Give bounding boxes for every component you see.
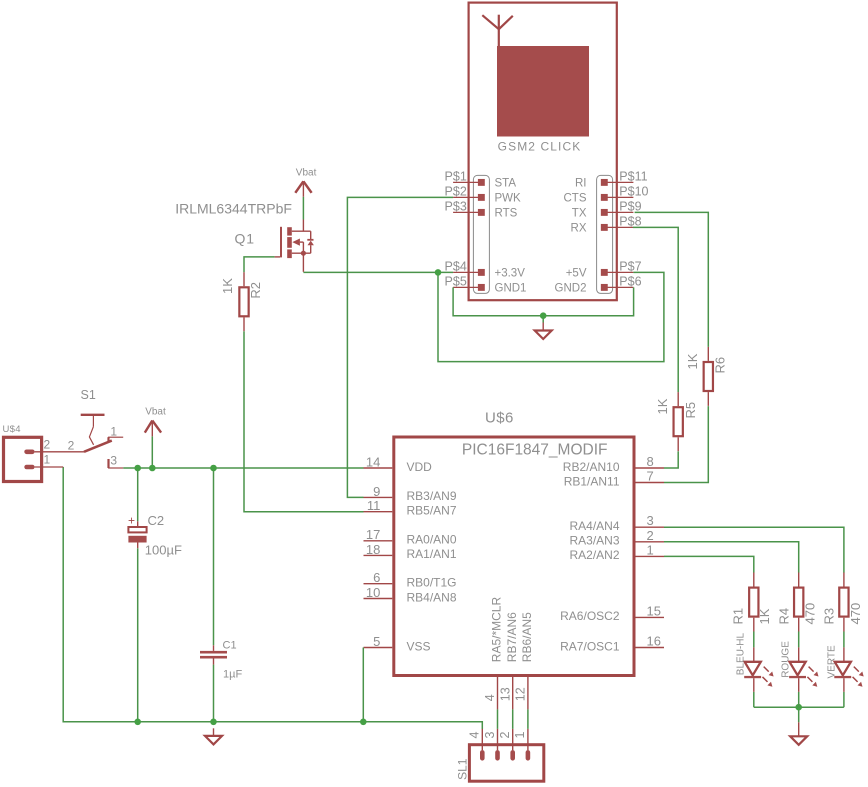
pin 1 of U$4 (24, 453, 63, 470)
wire Vbat supply stub at S1 (151, 436, 153, 468)
GSM2 CLICK filled square (497, 46, 589, 137)
resistor R5 1K (655, 392, 698, 451)
svg-text:VDD: VDD (407, 460, 433, 474)
supply Vbat at S1 (145, 407, 166, 437)
wire TX to R6 (635, 212, 709, 347)
pin P$5 GND1 (445, 275, 527, 295)
wire C1 bottom (213, 665, 215, 722)
capacitor C2 100uF (128, 513, 182, 558)
svg-text:2: 2 (647, 528, 654, 543)
wire PWK to RB3/AN9 (347, 197, 453, 497)
junction GND loop (540, 312, 547, 319)
wire Vbat to Q1 drain (302, 197, 304, 220)
svg-text:12: 12 (514, 687, 528, 701)
IC U$6 PIC16F1847_MODIF body (394, 437, 634, 676)
svg-text:Vbat: Vbat (145, 407, 166, 418)
wire ground rail from U$4 pin1 (63, 467, 482, 729)
svg-text:RB2/AN10: RB2/AN10 (563, 460, 620, 474)
svg-text:+3.3V: +3.3V (495, 268, 526, 280)
svg-text:RTS: RTS (495, 208, 518, 220)
svg-text:1K: 1K (220, 278, 235, 294)
pin 1 RA2/AN2 (569, 542, 664, 562)
svg-text:+5V: +5V (566, 268, 587, 280)
SL1 pin 2 (498, 729, 515, 761)
wire C2 bottom to ground rail (137, 548, 139, 722)
svg-text:ROUGE: ROUGE (780, 641, 791, 678)
pin 10 RB4/AN8 (364, 585, 457, 604)
svg-text:RB4/AN8: RB4/AN8 (407, 590, 457, 604)
svg-text:18: 18 (366, 542, 380, 557)
connector SL1 body (469, 745, 543, 782)
wire C2 top branch (137, 468, 139, 521)
pin P$6 GND2 (555, 275, 642, 295)
svg-text:RB5/AN7: RB5/AN7 (407, 504, 457, 518)
svg-text:4: 4 (483, 694, 497, 701)
svg-text:CTS: CTS (564, 193, 587, 205)
wire C1 branch top (213, 468, 215, 645)
switch S1 (81, 388, 112, 452)
svg-text:1K: 1K (655, 398, 670, 414)
svg-text:C1: C1 (223, 640, 237, 652)
svg-text:R4: R4 (776, 608, 791, 625)
svg-text:1K: 1K (685, 353, 700, 369)
transistor Q1 IRLML6344TRPbF (275, 220, 314, 272)
LED ROUGE (780, 632, 818, 708)
svg-text:RI: RI (575, 178, 587, 190)
pin 2 RA3/AN3 (569, 528, 664, 548)
pin P$9 TX (572, 200, 642, 220)
svg-text:GND1: GND1 (495, 283, 527, 295)
svg-text:U$6: U$6 (485, 410, 514, 427)
svg-text:RB7/AN6: RB7/AN6 (505, 612, 519, 662)
pin P$10 CTS (564, 185, 649, 205)
wire R5 bottom to RB2/AN10 pin8 (664, 451, 678, 468)
svg-text:PIC16F1847_MODIF: PIC16F1847_MODIF (462, 441, 608, 458)
ground symbol bottom right (790, 722, 807, 745)
junction LED rail (795, 704, 802, 711)
wire VSS riser (362, 648, 364, 722)
svg-text:14: 14 (366, 454, 380, 469)
pin 17 RA0/AN0 (364, 527, 457, 546)
svg-text:7: 7 (647, 469, 654, 484)
svg-text:5: 5 (373, 634, 380, 649)
antenna (482, 15, 513, 46)
svg-text:TX: TX (572, 208, 587, 220)
svg-text:R1: R1 (731, 608, 746, 625)
svg-text:RX: RX (571, 223, 587, 235)
svg-text:P$3: P$3 (445, 200, 467, 214)
svg-text:9: 9 (373, 484, 380, 499)
svg-text:RB6/AN5: RB6/AN5 (520, 612, 534, 662)
svg-text:C2: C2 (148, 513, 165, 528)
pin 13 RB7/AN6 (498, 612, 519, 710)
svg-text:U$4: U$4 (3, 424, 21, 435)
svg-text:RA5/*MCLR: RA5/*MCLR (490, 597, 504, 663)
svg-text:2: 2 (68, 439, 75, 453)
svg-text:R3: R3 (822, 608, 837, 625)
svg-text:RA0/AN0: RA0/AN0 (407, 533, 457, 547)
svg-text:10: 10 (366, 585, 380, 600)
wire gate to R2 top (244, 257, 275, 272)
junction +3.3V node (435, 269, 442, 276)
svg-text:R6: R6 (712, 357, 727, 374)
svg-text:1: 1 (647, 542, 654, 557)
svg-text:16: 16 (647, 634, 661, 649)
svg-text:P$2: P$2 (445, 185, 467, 199)
connector U$4 body (4, 437, 42, 481)
S1 pin 3 (108, 454, 123, 468)
svg-text:8: 8 (647, 454, 654, 469)
pin 4 RA5/*MCLR (483, 597, 504, 710)
module U$5 GSM2 CLICK outline (469, 3, 617, 301)
svg-text:PWK: PWK (495, 193, 522, 205)
svg-text:2: 2 (44, 438, 51, 452)
right header outline (597, 175, 613, 293)
pin 16 RA7/OSC1 (560, 634, 664, 654)
pin 8 RB2/AN10 (563, 454, 664, 474)
pin 6 RB0/T1G (364, 570, 457, 589)
wire RA4 to R3 (664, 527, 844, 572)
wire RA3 to R4 (664, 542, 799, 573)
svg-text:RA6/OSC2: RA6/OSC2 (560, 609, 620, 623)
svg-text:1: 1 (110, 425, 117, 439)
svg-text:2: 2 (498, 732, 512, 739)
svg-text:R5: R5 (683, 402, 698, 419)
svg-text:17: 17 (366, 527, 380, 542)
resistor R4 470 (776, 573, 817, 632)
wire GND1 GND2 loop (453, 287, 633, 315)
svg-text:1K: 1K (757, 608, 772, 624)
svg-text:STA: STA (495, 178, 517, 190)
svg-text:GSM2 CLICK: GSM2 CLICK (498, 140, 582, 154)
pin 2 of U$4 (24, 438, 84, 455)
wires chip bottom to SL1 (497, 709, 499, 729)
svg-text:100µF: 100µF (145, 543, 182, 558)
svg-text:470: 470 (848, 603, 863, 625)
svg-text:R2: R2 (248, 282, 263, 299)
svg-text:BLEU-HL: BLEU-HL (735, 633, 746, 676)
pin P$7 +5V (566, 260, 642, 280)
wire RA2 to R1 (664, 556, 754, 572)
svg-text:SL1: SL1 (455, 758, 469, 780)
S1 pin 1 (108, 425, 123, 442)
wire LED cathode rail (754, 706, 844, 708)
pin 5 VSS (364, 634, 431, 653)
svg-text:P$10: P$10 (619, 185, 648, 199)
LED BLEU-HL (735, 632, 773, 708)
svg-text:VSS: VSS (407, 639, 431, 653)
svg-text:RA1/AN1: RA1/AN1 (407, 547, 457, 561)
pin 18 RA1/AN1 (364, 542, 457, 561)
resistor R1 1K (731, 573, 772, 632)
svg-text:IRLML6344TRPbF: IRLML6344TRPbF (175, 201, 292, 217)
svg-text:11: 11 (367, 498, 381, 513)
wire Vbat-net horizontal (123, 467, 363, 469)
junction C2/gnd nodes (134, 465, 141, 472)
svg-text:RB1/AN11: RB1/AN11 (564, 474, 620, 488)
svg-text:RA2/AN2: RA2/AN2 (569, 548, 619, 562)
svg-text:VERTE: VERTE (826, 645, 837, 678)
svg-text:4: 4 (468, 732, 482, 739)
resistor R3 470 (822, 573, 864, 632)
svg-text:3: 3 (110, 454, 117, 468)
wire R6 bottom to RB1/AN11 pin7 (664, 406, 708, 482)
SL1 pin 3 (483, 729, 500, 761)
svg-text:P$9: P$9 (619, 200, 641, 214)
svg-text:1µF: 1µF (223, 669, 242, 681)
pin P$3 RTS (445, 200, 518, 220)
svg-text:Vbat: Vbat (296, 168, 317, 179)
svg-text:P$11: P$11 (619, 170, 647, 184)
svg-text:1: 1 (44, 453, 51, 467)
svg-text:P$7: P$7 (619, 260, 641, 274)
resistor R2 1K (220, 272, 263, 331)
SL1 pin 1 (513, 729, 530, 761)
svg-text:13: 13 (498, 687, 512, 701)
pin P$8 RX (571, 215, 642, 235)
left header outline (473, 175, 489, 293)
capacitor C1 1uF (200, 640, 242, 681)
pin 14 VDD (364, 454, 433, 473)
pin 11 RB5/AN7 (364, 498, 457, 517)
ground symbol under GSM (535, 323, 552, 340)
pin P$1 STA (445, 170, 517, 190)
svg-text:GND2: GND2 (555, 283, 587, 295)
svg-text:RA7/OSC1: RA7/OSC1 (560, 639, 620, 653)
svg-text:RB0/T1G: RB0/T1G (407, 576, 457, 590)
pin P$11 RI (575, 170, 648, 190)
ground symbol at C1 (205, 728, 222, 744)
SL1 pin 4 (468, 729, 485, 761)
svg-text:S1: S1 (81, 388, 96, 402)
svg-text:15: 15 (647, 603, 661, 618)
pin 3 RA4/AN4 (569, 513, 664, 533)
pin 7 RB1/AN11 (564, 469, 664, 489)
svg-text:P$5: P$5 (445, 275, 467, 289)
svg-text:P$8: P$8 (619, 215, 641, 229)
svg-text:+: + (128, 514, 135, 528)
pin 12 RB6/AN5 (514, 612, 535, 710)
wire RX to R5 (633, 227, 678, 392)
svg-text:RA3/AN3: RA3/AN3 (569, 534, 619, 548)
svg-text:470: 470 (803, 603, 818, 625)
svg-text:RB3/AN9: RB3/AN9 (407, 489, 457, 503)
svg-text:3: 3 (483, 732, 497, 739)
resistor R6 1K (685, 347, 727, 406)
pin P$2 PWK (445, 185, 521, 205)
supply Vbat at Q1 (295, 168, 316, 197)
wire Q1 source to +3.3V +5V (303, 271, 453, 273)
svg-text:6: 6 (373, 570, 380, 585)
svg-text:P$1: P$1 (445, 170, 467, 184)
svg-text:RA4/AN4: RA4/AN4 (569, 519, 619, 533)
svg-text:P$6: P$6 (619, 275, 641, 289)
LED VERTE (826, 632, 863, 708)
pin P$4 +3.3V (445, 260, 526, 280)
svg-text:1: 1 (513, 732, 527, 739)
pin 15 RA6/OSC2 (560, 603, 664, 623)
svg-text:P$4: P$4 (445, 260, 467, 274)
svg-text:Q1: Q1 (235, 231, 255, 247)
svg-text:3: 3 (647, 513, 654, 528)
pin 9 RB3/AN9 (364, 484, 457, 503)
wire R2 bottom to RB5/AN7 (244, 331, 364, 512)
